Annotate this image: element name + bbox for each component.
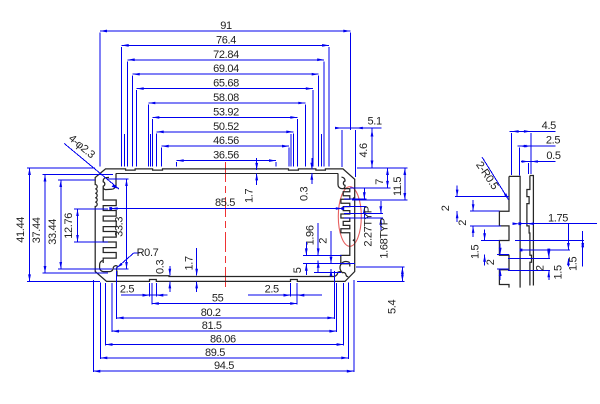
dimension 69.04: [133, 73, 319, 75]
dimension 36.56: [177, 160, 276, 162]
svg-text:2.5: 2.5: [546, 135, 560, 147]
extra extension lines in combs: [124, 134, 126, 167]
right wall screw channel (top): [338, 173, 350, 188]
svg-text:85.5: 85.5: [215, 197, 235, 209]
dimension 2: [472, 200, 474, 211]
svg-text:2: 2: [534, 265, 546, 271]
dimension 2: [499, 244, 501, 255]
dimension 2: [456, 186, 458, 197]
svg-text:2.27TYP: 2.27TYP: [363, 206, 375, 246]
svg-text:50.52: 50.52: [213, 121, 239, 133]
detail dimension 1.5 (right b): [582, 231, 584, 267]
svg-text:89.5: 89.5: [205, 347, 225, 359]
svg-text:2.5: 2.5: [265, 284, 279, 296]
svg-text:94.5: 94.5: [214, 360, 234, 372]
svg-text:1.7: 1.7: [183, 256, 195, 270]
detail right cluster extension lines: [515, 239, 584, 241]
svg-text:81.5: 81.5: [202, 320, 222, 332]
svg-text:33.44: 33.44: [47, 219, 59, 245]
right wall outer face nicks: [353, 197, 355, 241]
dimension 94.5: [93, 370, 354, 372]
svg-text:2: 2: [440, 205, 452, 211]
svg-text:0.3: 0.3: [299, 187, 311, 201]
leader R0.7: [117, 253, 135, 268]
dimension 5.4: [401, 267, 403, 281]
dimension 1.7 (top plate): [256, 158, 258, 170]
svg-text:1.5: 1.5: [568, 257, 580, 271]
svg-text:86.06: 86.06: [210, 334, 236, 346]
detail dimension 0.5: [521, 161, 556, 163]
dimension 1.68TYP: [380, 201, 382, 213]
svg-text:2.5: 2.5: [120, 284, 134, 296]
dimension 86.06: [106, 344, 344, 346]
dimension 33.44: [60, 180, 62, 269]
detail dimension 1.75: [520, 223, 598, 225]
dimension 76.4: [122, 44, 329, 46]
dimension 81.5: [112, 330, 336, 332]
left wall screw channel (top): [103, 173, 116, 189]
svg-text:2: 2: [457, 220, 469, 226]
svg-text:53.92: 53.92: [213, 106, 239, 118]
dimension 0.3 (top right): [311, 158, 313, 170]
svg-text:65.68: 65.68: [213, 78, 239, 90]
dimension 5.1: [335, 127, 382, 129]
dimension 65.68: [137, 88, 313, 90]
dimension 1.7 (floor thickness): [196, 248, 198, 276]
svg-text:5.1: 5.1: [367, 116, 381, 128]
detail dimension 4.5: [510, 130, 556, 132]
left wall screw channel (bottom): [100, 261, 118, 276]
svg-text:11.5: 11.5: [392, 177, 404, 196]
dimension 2.5 (bottom right): [248, 294, 322, 296]
svg-text:55: 55: [212, 293, 224, 305]
detail leader 2-R0.5: [482, 157, 509, 200]
svg-text:4.5: 4.5: [542, 120, 556, 132]
svg-text:36.56: 36.56: [213, 150, 239, 162]
left wall inner face with serration teeth: [103, 188, 116, 264]
svg-text:76.4: 76.4: [216, 34, 236, 46]
dimension 2.27TYP: [363, 188, 365, 199]
dimension 1.96: [317, 223, 319, 255]
dimension 58.08: [148, 102, 305, 104]
svg-text:7: 7: [374, 179, 386, 185]
dimension 91: [100, 30, 350, 32]
detail dimension 2 (right): [548, 250, 550, 258]
profile outer outline: [95, 169, 355, 282]
dimension 41.44: [29, 168, 31, 281]
svg-text:41.44: 41.44: [15, 217, 27, 243]
leader 4-φ2.3: [64, 143, 119, 189]
svg-text:5: 5: [292, 267, 304, 273]
svg-text:1.5: 1.5: [469, 245, 481, 259]
detail dimension 2.5: [518, 145, 556, 147]
dimension 4.6: [371, 129, 373, 168]
dimension 2.5 (bottom left): [121, 294, 168, 296]
detail view: serrated plate (left part): [499, 176, 520, 287]
dimension 53.92: [152, 116, 297, 118]
detail dimension 1.5 (right a): [567, 243, 570, 250]
svg-text:58.08: 58.08: [213, 92, 239, 104]
svg-text:2: 2: [318, 238, 330, 244]
dimension 55: [152, 303, 297, 305]
svg-text:4.6: 4.6: [358, 143, 370, 157]
svg-text:37.44: 37.44: [31, 217, 43, 243]
right wall inner face serrations: [341, 189, 350, 267]
dimension 12.76: [77, 209, 79, 242]
detail highlight ellipse: [338, 187, 361, 247]
dimension 72.84: [128, 59, 325, 61]
dimension 5 (right): [305, 242, 307, 255]
dimension 33.3: [126, 179, 128, 269]
dimension 11.5: [404, 168, 406, 200]
bottom extension lines (left): [151, 283, 153, 305]
svg-text:1.68TYP: 1.68TYP: [378, 218, 390, 258]
bottom extension lines (right): [296, 283, 298, 305]
svg-text:69.04: 69.04: [213, 63, 239, 75]
top dimension extension lines (left): [99, 33, 101, 167]
dimension 0.3 (floor step): [169, 266, 171, 276]
svg-text:0.5: 0.5: [546, 150, 560, 162]
dimension 37.44: [44, 175, 46, 274]
svg-text:1.75: 1.75: [548, 212, 568, 224]
svg-text:46.56: 46.56: [213, 135, 239, 147]
left dims extension lines: [27, 167, 95, 169]
dimension 85.5: [111, 208, 343, 210]
profile top plate inner surface: [116, 172, 338, 174]
right wall screw channel (bottom): [334, 261, 350, 276]
top dimension extension lines (right): [349, 33, 351, 131]
dimension 46.56: [162, 145, 289, 147]
dimension 89.5: [100, 357, 348, 359]
svg-text:1.5: 1.5: [553, 265, 565, 279]
centerline (red dashed): [225, 162, 227, 290]
svg-text:12.76: 12.76: [63, 213, 75, 239]
dimension 50.52: [157, 131, 294, 133]
svg-text:2: 2: [485, 259, 497, 265]
svg-text:5.4: 5.4: [386, 300, 398, 314]
detail left cluster extension lines: [455, 196, 509, 198]
svg-text:72.84: 72.84: [213, 49, 239, 61]
svg-text:1.7: 1.7: [243, 189, 255, 203]
dimension 7: [387, 168, 389, 188]
svg-text:33.3: 33.3: [114, 217, 126, 237]
svg-text:0.3: 0.3: [154, 260, 166, 274]
svg-text:91: 91: [220, 20, 232, 32]
dimension 80.2: [117, 317, 335, 319]
dimension 1.5: [484, 229, 486, 240]
dimension 2 (right wall): [330, 231, 332, 264]
svg-text:R0.7: R0.7: [137, 247, 159, 259]
detail view: mating rib (right part): [527, 176, 534, 286]
svg-text:80.2: 80.2: [201, 307, 221, 319]
extension lines right interior: [303, 254, 341, 256]
inner floor: [117, 275, 334, 278]
